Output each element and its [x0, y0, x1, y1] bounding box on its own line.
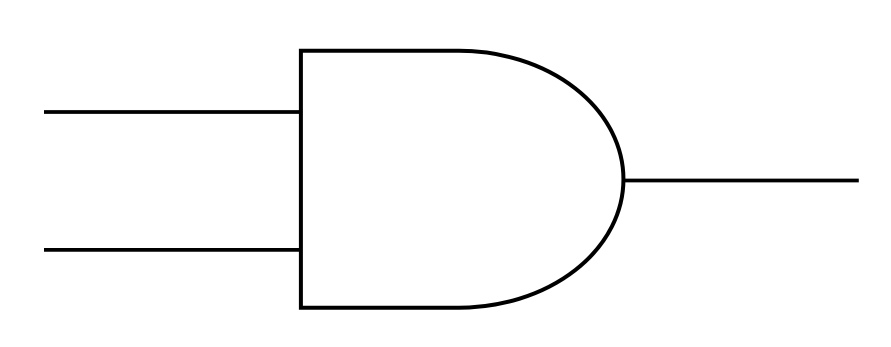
wire input A: [44, 110, 301, 114]
AND gate U1: [301, 51, 624, 308]
wire output: [624, 179, 859, 183]
wire input B: [44, 248, 301, 252]
